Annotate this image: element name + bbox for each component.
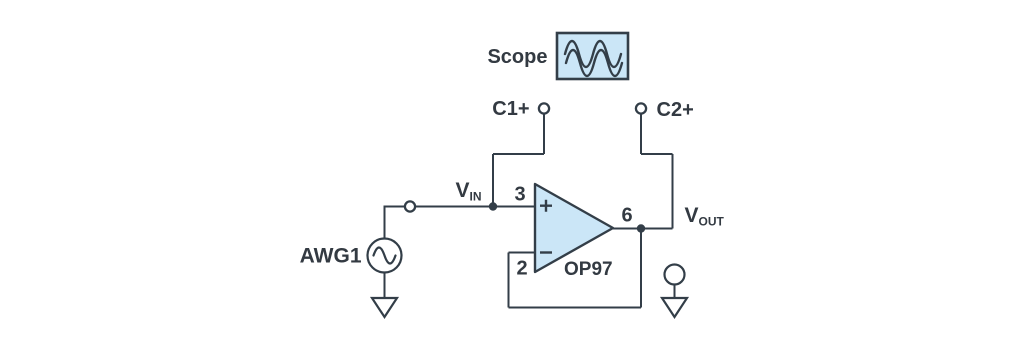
- svg-text:C2+: C2+: [657, 99, 694, 121]
- wire AWG1 to ground: [384, 273, 386, 299]
- wire op-amp output: [613, 228, 673, 230]
- wire C1 vertical to VIN node: [492, 154, 494, 207]
- op-amp U1 OP97 body: [535, 184, 613, 272]
- wire VIN node to pin 3: [493, 206, 535, 208]
- scope display box: [557, 33, 628, 79]
- svg-text:Scope: Scope: [487, 46, 547, 68]
- wire pin 2 stub: [509, 252, 536, 254]
- wire C2 vertical to output: [672, 154, 674, 229]
- wire reference circle to ground: [674, 285, 676, 299]
- node VIN junction: [489, 202, 497, 210]
- svg-text:C1+: C1+: [492, 98, 529, 120]
- svg-text:2: 2: [517, 258, 528, 280]
- source AWG1 sine symbol: [374, 248, 396, 264]
- op-amp minus input mark: [540, 251, 552, 253]
- ground AWG1: [372, 298, 397, 317]
- ground scope reference: [662, 298, 687, 317]
- wire feedback right vertical: [640, 229, 642, 308]
- wire C1 horizontal jog: [493, 153, 544, 155]
- svg-text:6: 6: [622, 205, 633, 227]
- wire AWG1 to input terminal: [385, 207, 406, 239]
- svg-text:OP97: OP97: [564, 259, 613, 280]
- wire input terminal to VIN node: [415, 206, 493, 208]
- wire feedback left vertical: [508, 253, 510, 308]
- scope waveform upper trace: [565, 41, 621, 67]
- op-amp plus input mark: [540, 200, 552, 212]
- node output junction: [637, 224, 645, 232]
- terminal input connector: [405, 201, 415, 211]
- source AWG1: [368, 239, 402, 273]
- terminal C1+: [539, 103, 549, 113]
- wire C1 vertical upper: [543, 114, 545, 155]
- wire feedback bottom horizontal: [509, 307, 642, 309]
- svg-text:AWG1: AWG1: [300, 245, 362, 268]
- wire C2 vertical upper: [640, 114, 642, 155]
- scope waveform lower trace: [566, 50, 622, 76]
- wire C2 horizontal jog: [641, 153, 673, 155]
- terminal C2 minus reference circle: [665, 265, 685, 285]
- terminal C2+: [636, 103, 646, 113]
- svg-text:3: 3: [515, 184, 526, 206]
